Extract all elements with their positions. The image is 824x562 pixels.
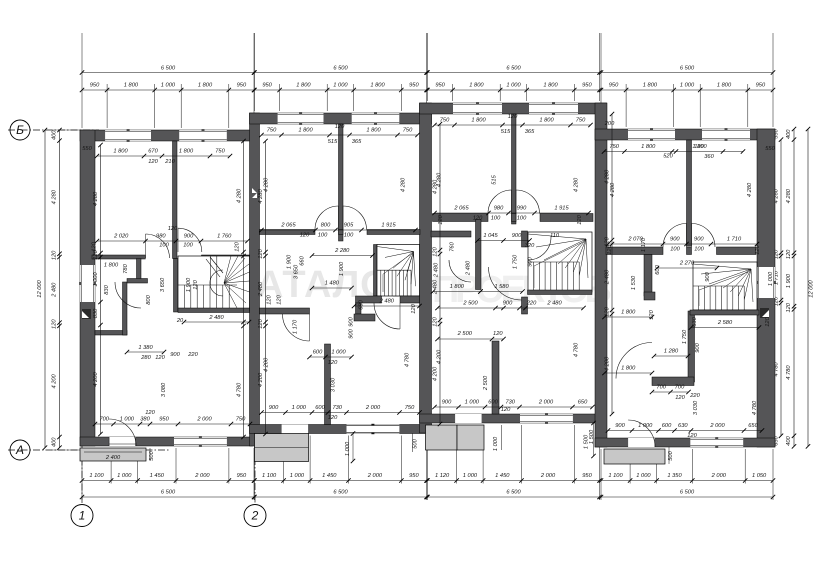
- unit 2 vestibule wall horizontal: [260, 308, 310, 314]
- unit 2 mid wall: [260, 230, 316, 235]
- svg-text:4 280: 4 280: [401, 177, 407, 192]
- svg-text:1 800: 1 800: [296, 83, 311, 89]
- svg-text:1 800: 1 800: [370, 83, 385, 89]
- svg-text:2 000: 2 000: [709, 423, 725, 429]
- svg-text:120: 120: [168, 226, 178, 232]
- svg-text:750: 750: [236, 417, 246, 423]
- unit 2 dim bottom interior: [262, 412, 420, 414]
- svg-text:380: 380: [140, 417, 150, 423]
- unit 1 stair left wall: [174, 259, 179, 313]
- svg-text:1 710: 1 710: [727, 237, 742, 243]
- svg-text:950: 950: [435, 83, 445, 89]
- svg-text:А: А: [15, 443, 24, 457]
- svg-text:6 500: 6 500: [333, 490, 348, 496]
- svg-text:600: 600: [488, 400, 498, 406]
- unit 1 closet wall: [137, 259, 142, 282]
- svg-text:120: 120: [277, 294, 283, 304]
- svg-text:280: 280: [140, 355, 151, 361]
- svg-text:1 170: 1 170: [641, 237, 647, 252]
- unit 4 right wall: [757, 129, 775, 447]
- svg-text:660: 660: [300, 255, 306, 265]
- unit 3 partition top bedrooms: [512, 114, 517, 224]
- svg-text:980: 980: [156, 234, 166, 240]
- unit 3 vestibule door arc: [449, 260, 471, 282]
- svg-text:2 480: 2 480: [208, 315, 224, 321]
- svg-text:365: 365: [525, 129, 535, 135]
- svg-text:1 350: 1 350: [667, 473, 682, 479]
- svg-text:2 480: 2 480: [546, 301, 562, 307]
- dimension 6500 bottom unit 2: [255, 496, 427, 498]
- svg-text:630: 630: [692, 316, 698, 326]
- axis circle A: [10, 440, 30, 460]
- svg-text:900: 900: [705, 271, 711, 281]
- unit 4 dim closet doors: [652, 391, 689, 393]
- dimension bottom row unit 1: [82, 480, 254, 482]
- svg-text:2 500: 2 500: [462, 301, 478, 307]
- svg-text:4 780: 4 780: [786, 365, 792, 380]
- svg-text:1 900: 1 900: [339, 261, 345, 276]
- svg-text:1 500: 1 500: [589, 429, 595, 444]
- svg-text:950: 950: [756, 83, 766, 89]
- svg-text:2 000: 2 000: [367, 473, 383, 479]
- svg-text:4 200: 4 200: [258, 372, 264, 387]
- svg-text:1 915: 1 915: [381, 223, 396, 229]
- unit 2 bottom wall: [250, 425, 432, 434]
- unit 4 hall wall vertical lower: [688, 311, 695, 382]
- svg-text:1 900: 1 900: [786, 273, 792, 288]
- svg-text:1 800: 1 800: [621, 366, 636, 372]
- svg-text:1 800: 1 800: [124, 83, 139, 89]
- svg-text:6 500: 6 500: [680, 66, 695, 72]
- svg-text:120: 120: [605, 306, 611, 316]
- svg-text:6 500: 6 500: [333, 66, 348, 72]
- svg-text:120: 120: [411, 303, 417, 313]
- unit 2 vestibule door arc: [283, 314, 310, 341]
- unit 2 stair exit door arc: [374, 303, 400, 329]
- svg-text:900: 900: [184, 234, 194, 240]
- svg-text:100: 100: [318, 233, 328, 239]
- unit 4 top window left: [628, 129, 675, 140]
- svg-text:12 000: 12 000: [37, 279, 43, 297]
- unit 1 left wall window: [80, 265, 95, 302]
- svg-text:2 480: 2 480: [258, 281, 264, 297]
- svg-text:400: 400: [52, 130, 58, 140]
- unit 4 right wall insulation mark: [760, 308, 769, 318]
- party wall units 1-2: [250, 113, 260, 446]
- svg-text:220: 220: [689, 393, 700, 399]
- svg-text:2 480: 2 480: [52, 282, 58, 298]
- dimension 6500 top unit 4: [601, 72, 773, 74]
- svg-text:1 000: 1 000: [120, 417, 135, 423]
- svg-text:200: 200: [604, 121, 615, 127]
- unit 4 stair bottom wall: [690, 310, 759, 315]
- svg-text:120: 120: [300, 233, 310, 239]
- dimension chain party wall 3-4: [611, 114, 613, 414]
- unit 2 stair: [377, 245, 420, 297]
- svg-text:700: 700: [656, 385, 666, 391]
- svg-text:900: 900: [528, 256, 534, 266]
- unit 4 stair: [693, 262, 757, 310]
- svg-text:760: 760: [450, 241, 456, 251]
- svg-text:1 380: 1 380: [138, 345, 153, 351]
- svg-text:120: 120: [235, 241, 241, 251]
- dimension row 950-1800-1000-1800-950 unit 1: [82, 89, 254, 91]
- dimension 12000 left: [44, 130, 46, 448]
- svg-text:900: 900: [269, 405, 279, 411]
- svg-text:650: 650: [748, 423, 758, 429]
- svg-text:1 000: 1 000: [331, 350, 346, 356]
- svg-text:2 270: 2 270: [679, 261, 695, 267]
- unit 2 bottom window: [347, 425, 400, 434]
- party wall units 3-4: [595, 103, 607, 447]
- svg-text:1 800: 1 800: [450, 284, 465, 290]
- dimension chain party wall 2-3: [439, 124, 441, 424]
- unit 4 dim left room: [605, 316, 653, 318]
- svg-text:1 800: 1 800: [471, 118, 486, 124]
- svg-text:2 480: 2 480: [605, 269, 611, 285]
- unit 1 door arc mid right: [178, 228, 202, 252]
- dimension chain party wall 1-2: [265, 141, 267, 434]
- unit 3 dim vestibule: [478, 240, 530, 242]
- dimension bottom row unit 4: [601, 480, 773, 482]
- svg-text:1 800: 1 800: [469, 83, 484, 89]
- svg-text:650: 650: [578, 400, 588, 406]
- svg-text:120: 120: [755, 244, 761, 254]
- unit 2 lower room wall vertical: [325, 344, 331, 425]
- svg-text:3 080: 3 080: [161, 382, 167, 397]
- svg-text:550: 550: [765, 146, 775, 152]
- svg-text:1 800: 1 800: [621, 310, 636, 316]
- svg-text:120: 120: [501, 407, 511, 413]
- svg-text:1 800: 1 800: [366, 128, 381, 134]
- svg-text:120: 120: [687, 433, 697, 439]
- unit 1 bottom wall: [80, 437, 253, 446]
- svg-text:1 450: 1 450: [322, 473, 337, 479]
- svg-text:120: 120: [493, 331, 503, 337]
- dimension row 950-1800-1000-1800-950 unit 2: [255, 89, 427, 91]
- svg-text:950: 950: [262, 83, 272, 89]
- svg-text:750: 750: [405, 405, 415, 411]
- svg-text:4 280: 4 280: [258, 189, 264, 204]
- unit 1 door arc wc: [115, 282, 141, 308]
- unit 1 stair: [178, 256, 250, 311]
- svg-text:1 800: 1 800: [179, 149, 194, 155]
- unit 3 top window right: [529, 103, 578, 114]
- svg-text:2 400: 2 400: [105, 455, 121, 461]
- svg-text:600: 600: [655, 264, 661, 274]
- unit 3 top window left: [453, 103, 502, 114]
- svg-text:900: 900: [615, 423, 625, 429]
- svg-text:1 800: 1 800: [298, 128, 313, 134]
- svg-text:900: 900: [170, 352, 180, 358]
- svg-text:950: 950: [90, 83, 100, 89]
- svg-text:1 000: 1 000: [161, 83, 176, 89]
- svg-text:1 100: 1 100: [262, 473, 277, 479]
- unit 4 door arc mid left: [663, 224, 687, 248]
- unit 3 door arc hall upper: [528, 237, 551, 260]
- svg-text:100: 100: [183, 243, 193, 249]
- svg-text:120: 120: [433, 246, 439, 256]
- svg-text:1 750: 1 750: [513, 254, 519, 269]
- svg-text:3 030: 3 030: [693, 400, 699, 415]
- svg-text:2 280: 2 280: [334, 248, 350, 254]
- unit 3 dim top interior: [435, 124, 591, 126]
- unit 1 dim stair width: [184, 321, 249, 323]
- svg-text:4 200: 4 200: [93, 372, 99, 387]
- unit 3 dim rooms: [438, 338, 504, 340]
- svg-text:780: 780: [123, 263, 129, 273]
- unit 1 dim mid interior: [97, 240, 248, 242]
- unit 1 porch: [80, 448, 146, 461]
- svg-text:1 100: 1 100: [608, 473, 623, 479]
- svg-text:4 280: 4 280: [747, 182, 753, 197]
- svg-text:1 045: 1 045: [483, 233, 498, 239]
- unit 4 door arc entry: [628, 420, 655, 447]
- unit 4 dim top interior: [604, 151, 743, 153]
- svg-text:6 500: 6 500: [506, 66, 521, 72]
- unit 3 bottom wall: [420, 414, 607, 423]
- svg-text:4 200: 4 200: [605, 356, 611, 371]
- unit 4 top window right: [702, 129, 750, 140]
- svg-text:2 065: 2 065: [453, 206, 469, 212]
- svg-text:900: 900: [695, 342, 701, 352]
- svg-text:120: 120: [694, 144, 704, 150]
- svg-text:830: 830: [93, 308, 99, 318]
- svg-text:2 020: 2 020: [113, 234, 129, 240]
- svg-text:320: 320: [525, 243, 535, 249]
- svg-text:1 580: 1 580: [494, 284, 509, 290]
- svg-text:1 170: 1 170: [293, 319, 299, 334]
- svg-text:2 480: 2 480: [466, 260, 472, 276]
- axis circle B: [10, 120, 30, 140]
- svg-text:750: 750: [403, 128, 413, 134]
- unit 2 dim mid interior: [262, 229, 416, 231]
- svg-text:120: 120: [93, 249, 99, 259]
- svg-text:4 280: 4 280: [605, 169, 611, 184]
- svg-text:950: 950: [159, 417, 169, 423]
- unit 1 top wall: [80, 130, 253, 141]
- svg-text:950: 950: [237, 473, 247, 479]
- svg-text:4 280: 4 280: [786, 188, 792, 203]
- axis circle 2: [244, 505, 266, 527]
- axis line A horizontal: [8, 449, 170, 451]
- svg-text:1 000: 1 000: [93, 272, 99, 287]
- unit 2 door arc mid left: [315, 206, 339, 230]
- unit 1 dim hall: [127, 351, 164, 353]
- svg-text:120: 120: [193, 279, 199, 289]
- unit 3 dim mid interior: [435, 212, 589, 214]
- dimension 6500 bottom unit 1: [82, 496, 254, 498]
- svg-text:1 450: 1 450: [150, 473, 165, 479]
- svg-text:120: 120: [675, 395, 685, 401]
- svg-text:1 900: 1 900: [287, 254, 293, 269]
- svg-text:1 000: 1 000: [345, 441, 351, 456]
- unit 3 vestibule wall vertical: [476, 220, 482, 290]
- unit 2 top wall: [250, 113, 432, 124]
- svg-text:120: 120: [577, 214, 583, 224]
- svg-text:1 800: 1 800: [641, 144, 656, 150]
- svg-text:100: 100: [694, 247, 704, 253]
- unit 4 dim bottom interior: [608, 430, 762, 432]
- unit 3 top wall: [420, 103, 607, 114]
- svg-text:120: 120: [473, 216, 483, 222]
- unit 2 top window left: [278, 113, 324, 124]
- svg-text:1 800: 1 800: [198, 83, 213, 89]
- svg-text:120: 120: [438, 214, 444, 224]
- svg-text:600: 600: [315, 405, 325, 411]
- unit 4 door arc lower: [616, 343, 652, 379]
- unit 1 wc walls: [95, 331, 127, 336]
- svg-text:120: 120: [52, 319, 58, 329]
- svg-text:950: 950: [582, 473, 592, 479]
- unit 2 closet walls: [356, 303, 362, 314]
- unit 4 door arc mid right: [692, 224, 716, 248]
- svg-text:100: 100: [159, 243, 169, 249]
- svg-text:400: 400: [786, 129, 792, 139]
- svg-text:1 000: 1 000: [506, 83, 521, 89]
- svg-text:4 280: 4 280: [52, 189, 58, 204]
- unit 4 partition top bedrooms: [687, 140, 692, 246]
- svg-text:4 200: 4 200: [437, 349, 443, 364]
- svg-text:2 480: 2 480: [434, 262, 440, 278]
- unit 2 door arc mid right: [343, 206, 367, 230]
- svg-text:4 200: 4 200: [433, 366, 439, 381]
- svg-text:2 000: 2 000: [540, 473, 556, 479]
- dimension row 950-1800-1000-1800-950 unit 3: [428, 89, 600, 91]
- svg-text:500: 500: [413, 438, 419, 448]
- unit 4 right wall window: [757, 267, 775, 298]
- svg-text:600: 600: [313, 350, 323, 356]
- svg-text:220: 220: [187, 352, 198, 358]
- dimension chain right inner: [780, 140, 782, 436]
- svg-text:1 000: 1 000: [768, 271, 774, 286]
- svg-text:800: 800: [321, 223, 331, 229]
- svg-text:120: 120: [92, 241, 98, 251]
- svg-text:4 280: 4 280: [237, 188, 243, 203]
- unit 3 bottom door opening: [455, 414, 482, 423]
- unit 2 dim hall: [312, 287, 352, 289]
- svg-text:210: 210: [164, 159, 175, 165]
- svg-text:900: 900: [512, 233, 522, 239]
- axis line B horizontal: [8, 129, 99, 131]
- svg-text:900: 900: [349, 316, 355, 326]
- svg-text:120: 120: [258, 248, 264, 258]
- svg-text:2 000: 2 000: [365, 405, 381, 411]
- unit 1 dim top interior: [97, 155, 230, 157]
- svg-text:630: 630: [678, 423, 688, 429]
- svg-text:750: 750: [576, 118, 586, 124]
- unit 4 bottom wall: [595, 438, 775, 447]
- dimension 12000 right: [807, 129, 809, 446]
- svg-text:990: 990: [517, 206, 527, 212]
- unit 3 porch: [426, 425, 458, 450]
- unit 3 lower room partition wall: [492, 341, 499, 414]
- svg-text:6 500: 6 500: [161, 490, 176, 496]
- unit 3 hall vertical wall lower: [522, 297, 528, 314]
- svg-text:4 780: 4 780: [574, 342, 580, 357]
- unit 4 top wall: [595, 129, 775, 140]
- svg-text:120: 120: [508, 114, 518, 120]
- svg-text:2 065: 2 065: [280, 223, 296, 229]
- svg-text:1 800: 1 800: [539, 118, 554, 124]
- svg-text:2 000: 2 000: [538, 400, 554, 406]
- svg-text:1 000: 1 000: [465, 400, 480, 406]
- svg-text:1 530: 1 530: [631, 275, 637, 290]
- svg-text:550: 550: [82, 146, 92, 152]
- svg-text:1 800: 1 800: [543, 83, 558, 89]
- unit 4 bottom window: [690, 438, 743, 447]
- svg-text:1 000: 1 000: [638, 423, 653, 429]
- axis line 1 vertical: [81, 446, 83, 504]
- dimension chain left 400-4280-120-2480-120-4200-400: [59, 130, 61, 448]
- unit 4 mid wall: [606, 247, 663, 255]
- unit 2 dim stair width: [354, 305, 420, 307]
- unit 1 top window left: [105, 130, 151, 141]
- svg-text:2 480: 2 480: [433, 279, 439, 295]
- svg-text:1: 1: [79, 509, 86, 523]
- svg-text:120: 120: [605, 236, 611, 246]
- svg-text:120: 120: [267, 294, 273, 304]
- svg-text:1 000: 1 000: [290, 473, 305, 479]
- unit 1 partition between top bedrooms: [173, 141, 178, 259]
- svg-text:4 780: 4 780: [237, 382, 243, 397]
- svg-text:12 000: 12 000: [809, 279, 815, 297]
- party wall insulation marks: [252, 188, 257, 198]
- svg-text:1 000: 1 000: [292, 405, 307, 411]
- svg-text:110: 110: [550, 233, 560, 239]
- svg-text:1 280: 1 280: [664, 349, 679, 355]
- svg-text:1 000: 1 000: [680, 83, 695, 89]
- unit 3 vestibule wall horizontal: [431, 231, 471, 237]
- unit 1 door arc entry: [109, 419, 136, 446]
- svg-text:750: 750: [267, 128, 277, 134]
- svg-text:750: 750: [215, 149, 225, 155]
- unit 2 dim top interior: [262, 134, 418, 136]
- svg-text:750: 750: [609, 144, 619, 150]
- svg-text:700: 700: [675, 385, 685, 391]
- svg-text:900: 900: [503, 301, 513, 307]
- dimension 6500 top unit 3: [428, 72, 600, 74]
- svg-text:4 280: 4 280: [610, 182, 616, 197]
- svg-text:4 280: 4 280: [574, 177, 580, 192]
- svg-text:600: 600: [662, 423, 672, 429]
- svg-text:950: 950: [409, 473, 419, 479]
- svg-text:1 800: 1 800: [643, 83, 658, 89]
- unit 4 bottom door opening: [628, 438, 655, 447]
- axis circle 1: [71, 505, 93, 527]
- dimension bottom row unit 2: [255, 480, 427, 482]
- dimension bottom row unit 3: [428, 480, 600, 482]
- svg-text:1 480: 1 480: [325, 281, 340, 287]
- unit 2 top window right: [352, 113, 400, 124]
- dimension 6500 bottom unit 3: [428, 496, 600, 498]
- svg-text:2 500: 2 500: [457, 331, 473, 337]
- svg-text:1 000: 1 000: [117, 473, 132, 479]
- svg-text:900: 900: [694, 237, 704, 243]
- svg-text:1 915: 1 915: [554, 206, 569, 212]
- svg-text:670: 670: [148, 149, 158, 155]
- svg-text:120: 120: [145, 410, 155, 416]
- svg-text:905: 905: [344, 223, 354, 229]
- unit 4 dim mid interior: [608, 243, 757, 245]
- unit 1 left wall insulation mark: [82, 309, 91, 319]
- svg-text:3 030: 3 030: [331, 377, 337, 392]
- svg-text:680: 680: [359, 299, 365, 309]
- unit 2 dim vestibule door: [310, 356, 352, 358]
- svg-text:900: 900: [349, 328, 355, 338]
- unit 1 mid wall: [92, 255, 145, 259]
- unit 4 dim hall: [657, 267, 717, 269]
